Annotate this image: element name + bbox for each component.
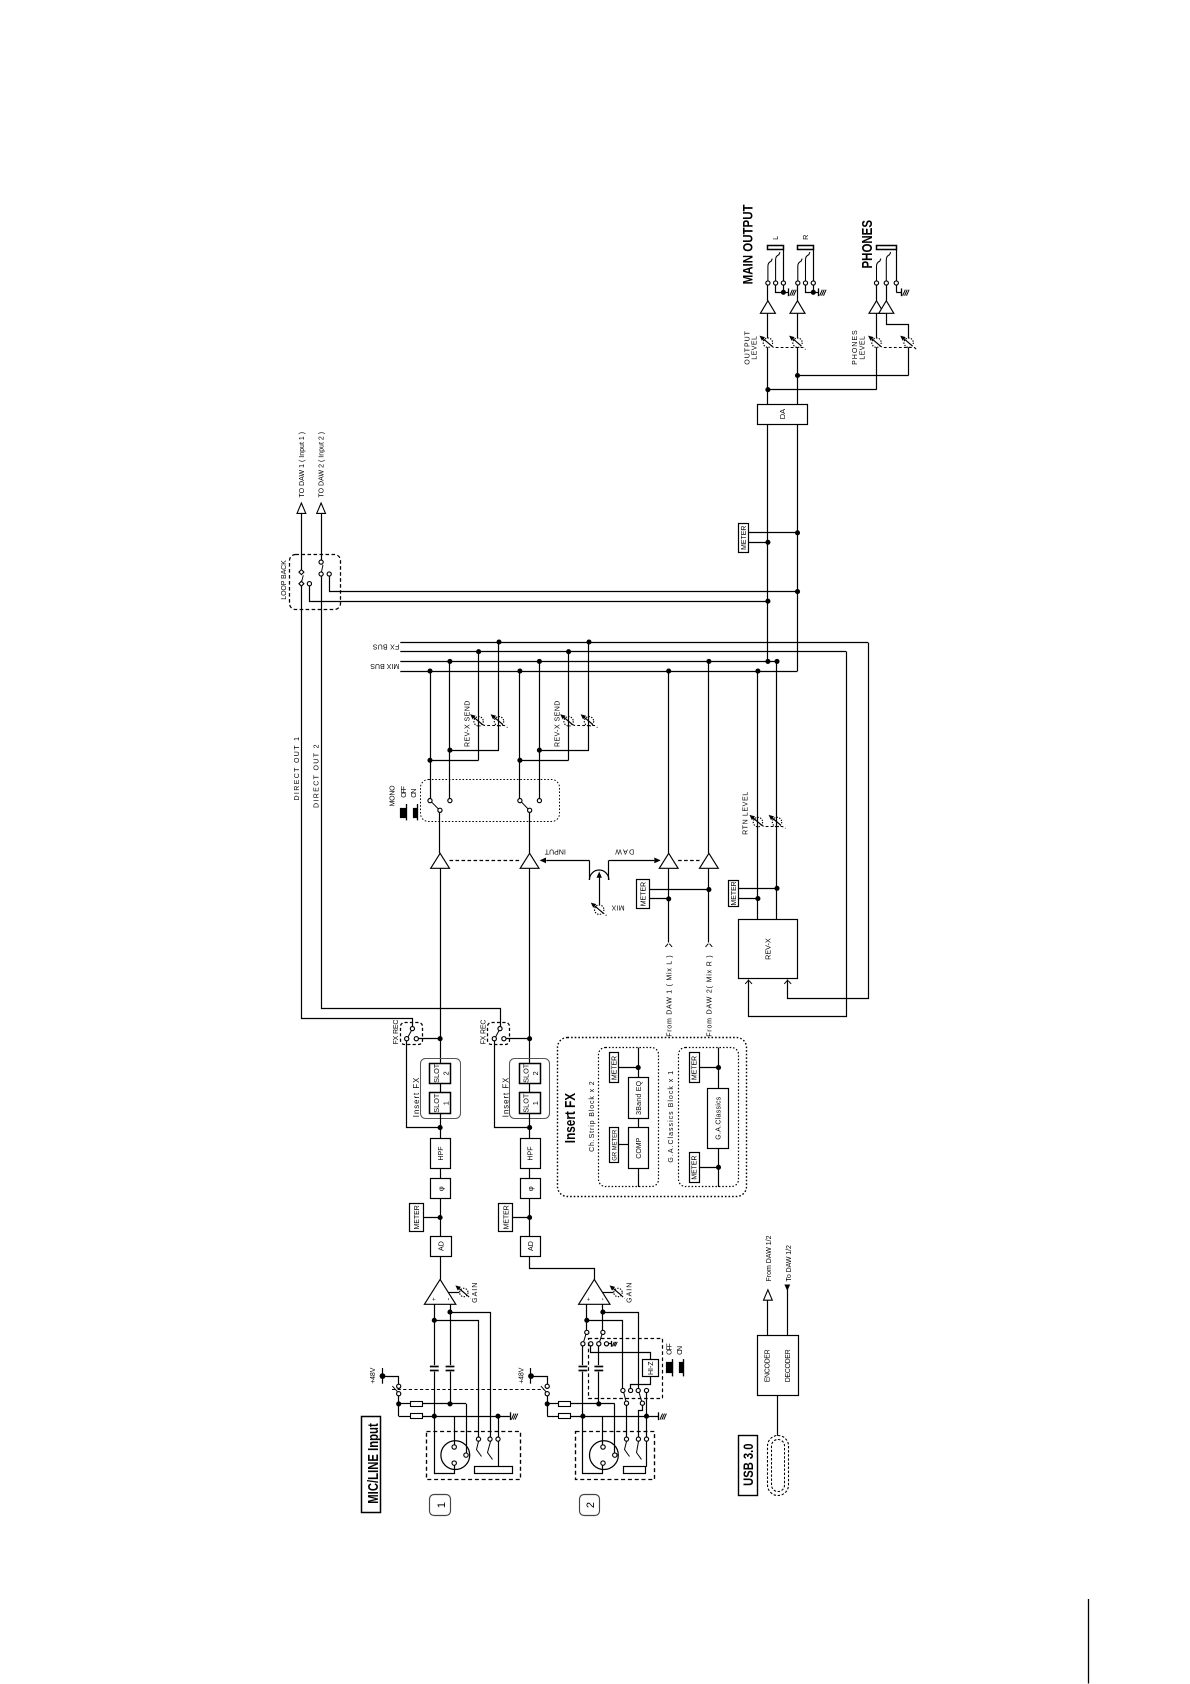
svg-text:DECODER: DECODER (785, 1349, 792, 1382)
svg-text:φ: φ (526, 1186, 535, 1191)
svg-text:DAW: DAW (615, 848, 634, 855)
svg-text:1: 1 (436, 1502, 448, 1508)
svg-text:ENCODER: ENCODER (765, 1349, 772, 1382)
svg-text:METER: METER (692, 1156, 699, 1180)
svg-text:METER: METER (503, 1205, 510, 1229)
svg-text:+: + (431, 1297, 438, 1301)
svg-text:LEVEL: LEVEL (751, 336, 758, 360)
svg-text:GR METER: GR METER (612, 1130, 619, 1161)
svg-text:LOOP BACK: LOOP BACK (281, 560, 288, 600)
svg-text:From DAW 1/2: From DAW 1/2 (766, 1235, 773, 1281)
svg-text:2: 2 (585, 1502, 597, 1508)
svg-text:OFF: OFF (401, 786, 408, 798)
svg-text:LEVEL: LEVEL (860, 336, 867, 360)
svg-text:1: 1 (441, 1101, 450, 1105)
svg-text:+48V: +48V (518, 1367, 525, 1384)
svg-text:2: 2 (531, 1071, 540, 1075)
svg-text:MIC/LINE Input: MIC/LINE Input (365, 1423, 382, 1504)
svg-text:MAIN OUTPUT: MAIN OUTPUT (740, 204, 756, 284)
svg-text:HI-Z: HI-Z (648, 1361, 655, 1375)
svg-text:G.A.Classics Block x 1: G.A.Classics Block x 1 (668, 1071, 675, 1163)
svg-text:METER: METER (731, 881, 738, 905)
svg-text:HPF: HPF (437, 1146, 445, 1161)
svg-text:OUTPUT: OUTPUT (744, 330, 751, 364)
svg-text:HPF: HPF (527, 1146, 535, 1161)
svg-text:2: 2 (441, 1071, 450, 1075)
svg-text:PHONES: PHONES (859, 220, 876, 269)
svg-text:AD: AD (438, 1241, 446, 1251)
svg-text:FX REC: FX REC (481, 1020, 488, 1045)
svg-text:SLOT: SLOT (522, 1093, 531, 1113)
svg-text:METER: METER (612, 1056, 619, 1080)
svg-text:USB 3.0: USB 3.0 (741, 1444, 756, 1486)
svg-text:+: + (585, 1297, 592, 1301)
svg-text:3Band EQ: 3Band EQ (636, 1080, 643, 1115)
svg-text:SLOT: SLOT (432, 1063, 441, 1083)
svg-text:GAIN: GAIN (626, 1283, 633, 1303)
svg-text:ON: ON (411, 789, 418, 798)
svg-text:SLOT: SLOT (432, 1093, 441, 1113)
svg-text:Insert FX: Insert FX (412, 1077, 421, 1117)
svg-text:MONO: MONO (390, 785, 397, 807)
svg-text:MIX BUS: MIX BUS (370, 662, 399, 669)
svg-text:G.A.Classics: G.A.Classics (716, 1096, 723, 1140)
svg-text:METER: METER (692, 1056, 699, 1080)
svg-text:ON: ON (677, 1346, 684, 1355)
svg-text:REV-X SEND: REV-X SEND (555, 701, 562, 747)
svg-text:DA: DA (778, 409, 787, 419)
svg-text:DIRECT OUT 1: DIRECT OUT 1 (294, 737, 301, 801)
svg-text:RTN LEVEL: RTN LEVEL (742, 792, 749, 835)
svg-text:INPUT: INPUT (544, 848, 566, 855)
svg-text:METER: METER (414, 1205, 421, 1229)
svg-text:PHONES: PHONES (852, 330, 859, 365)
svg-text:R: R (801, 235, 810, 240)
svg-text:1: 1 (531, 1101, 540, 1105)
svg-text:From DAW 1 ( Mix L ): From DAW 1 ( Mix L ) (666, 955, 673, 1037)
svg-text:OFF: OFF (667, 1343, 674, 1355)
svg-text:AD: AD (527, 1241, 535, 1251)
svg-text:MIX: MIX (611, 904, 624, 911)
svg-text:COMP: COMP (636, 1137, 643, 1158)
svg-text:TO DAW 1 ( Input 1 ): TO DAW 1 ( Input 1 ) (299, 432, 306, 498)
svg-text:FX REC: FX REC (393, 1020, 400, 1045)
svg-text:REV-X: REV-X (764, 938, 773, 960)
svg-text:L: L (771, 236, 780, 240)
svg-text:From DAW 2( Mix R ): From DAW 2( Mix R ) (706, 955, 713, 1037)
svg-text:METER: METER (641, 882, 648, 906)
svg-text:FX BUS: FX BUS (372, 643, 399, 650)
svg-text:REV-X SEND: REV-X SEND (465, 701, 472, 747)
svg-text:Insert FX: Insert FX (563, 1093, 579, 1144)
svg-text:+48V: +48V (370, 1367, 377, 1384)
svg-text:To DAW 1/2: To DAW 1/2 (786, 1245, 793, 1281)
svg-text:METER: METER (741, 526, 748, 550)
svg-text:Insert FX: Insert FX (502, 1077, 511, 1117)
svg-text:DIRECT OUT 2: DIRECT OUT 2 (314, 744, 321, 808)
svg-text:Ch.Strip Block x 2: Ch.Strip Block x 2 (589, 1081, 596, 1152)
svg-text:φ: φ (436, 1186, 445, 1191)
svg-text:TO DAW 2 ( Input 2 ): TO DAW 2 ( Input 2 ) (319, 432, 326, 498)
svg-text:GAIN: GAIN (472, 1283, 479, 1303)
svg-text:SLOT: SLOT (522, 1063, 531, 1083)
